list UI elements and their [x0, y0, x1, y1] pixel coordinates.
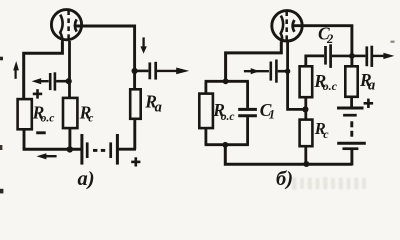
- wire Rc bottom lead (b): [304, 146, 307, 164]
- svg-text:с: с: [88, 112, 93, 124]
- resistor Rc (a): [63, 98, 77, 128]
- resistor Ra (a): [130, 89, 141, 119]
- input arrow right (b): [244, 70, 269, 72]
- battery B2 (b): long plate: [337, 142, 366, 145]
- bottom rail (a): [23, 148, 81, 151]
- battery B1 (a): dashes: [93, 149, 97, 152]
- wire down to bottom rail (b): [225, 145, 352, 165]
- battery B2 (b): short plate: [343, 147, 359, 150]
- node: anode/C2/Ra junction dot (b): [349, 53, 355, 59]
- tube V1 cathode: [60, 15, 62, 42]
- battery B2 (b): short plate: [343, 114, 357, 117]
- node: bottom junction dot (a): [67, 146, 73, 152]
- wire Ra bottom lead: [133, 119, 136, 149]
- page speck left top: [0, 57, 3, 61]
- node: grid junction dot: [66, 78, 72, 84]
- arrow down (anode current): [142, 37, 144, 47]
- plus sign battery (b): [364, 102, 374, 105]
- tube V2 anode: [293, 20, 295, 32]
- svg-text:с: с: [323, 127, 329, 141]
- wire left branch to Ro.c (b): [204, 81, 207, 93]
- battery B2 (b): long plate: [337, 107, 364, 110]
- tube V2 envelope: [272, 11, 302, 41]
- minus sign under Ro.c: [36, 131, 46, 134]
- resistor Ro.c (a): [18, 99, 32, 129]
- capacitor Cg (a) plates: [49, 73, 52, 90]
- wire Cg to grid lead (b): [278, 70, 288, 73]
- node: anode junction dot: [132, 68, 138, 74]
- wire battery to Ra lead: [119, 148, 136, 151]
- capacitor C-out (b) plates: [365, 46, 368, 66]
- plus sign battery (a): [131, 161, 140, 164]
- wire C2 to junction: [332, 55, 352, 58]
- wire junction to output capacitor: [135, 70, 149, 73]
- wire Cg to grid junction: [56, 80, 69, 83]
- battery B1 (a): long plate: [80, 134, 83, 165]
- node: Rc bottom rail dot (b): [303, 161, 309, 167]
- node: bottom of RC block dot (b): [222, 142, 228, 148]
- up arrow (input, a): [15, 69, 17, 79]
- tube V2 cathode: [281, 16, 283, 43]
- wire C1 bottom lead: [246, 117, 249, 145]
- arrow left under rail (a): [37, 153, 47, 159]
- wire between Ro.c and Rc (b): [304, 97, 307, 120]
- svg-text:1: 1: [269, 107, 275, 121]
- svg-text:о.с: о.с: [41, 113, 55, 125]
- capacitor C-out (a) plates: [148, 62, 151, 79]
- svg-text:о.с: о.с: [221, 111, 235, 123]
- capacitor C1 plates: [238, 108, 257, 111]
- node: top of RC block dot (b): [223, 78, 229, 84]
- svg-text:о.с: о.с: [323, 79, 338, 93]
- wire grid lead down to divider (b): [288, 42, 306, 110]
- wire Rc bottom lead: [68, 128, 71, 149]
- wire Ro.c bottom lead: [23, 129, 26, 149]
- battery B1 (a): long plate: [116, 134, 119, 165]
- page speck top right: [391, 41, 395, 43]
- wire grid lead: [68, 41, 71, 99]
- svg-text:а): а): [78, 168, 95, 190]
- wire top of divider to C2: [306, 56, 324, 67]
- input arrow left (a): [32, 78, 42, 84]
- page speck left bottom: [0, 189, 3, 194]
- wire RC block top bar: [205, 80, 249, 83]
- wire Ro.c (b) bottom lead: [204, 128, 207, 145]
- node: divider junction dot (b): [302, 106, 308, 112]
- resistor Ro.c (b, middle): [300, 66, 313, 97]
- tube V1 anode: [75, 19, 77, 31]
- capacitor Cg (b) plates: [269, 62, 272, 81]
- svg-text:а: а: [155, 100, 162, 116]
- page speck left middle: [0, 145, 2, 150]
- wire C1 top lead: [246, 81, 249, 108]
- resistor Ra (b): [345, 66, 357, 97]
- capacitor C2 plates: [324, 46, 327, 65]
- tube V1 grid (dashed): [67, 10, 70, 40]
- node: grid/Cg junction dot (b): [285, 69, 290, 74]
- resistor Rc (b): [300, 120, 313, 147]
- wire RC block bottom bar: [205, 143, 249, 146]
- battery B1 (a): short plate: [109, 142, 112, 158]
- output arrow right (b): [373, 55, 385, 57]
- wire anode to corner and down to node: [293, 26, 352, 67]
- wire battery to bottom rail (b): [350, 149, 353, 166]
- resistor Ro.c (b, left): [199, 94, 213, 129]
- wire junction to output capacitor (b): [352, 55, 366, 58]
- output arrow right (a): [157, 70, 179, 72]
- wire Ra to battery (b): [350, 97, 353, 108]
- tube V1 envelope: [51, 10, 81, 40]
- faint print bleed bottom right: [292, 177, 366, 190]
- svg-text:а: а: [368, 78, 375, 94]
- wire cathode to left branch: [24, 42, 63, 100]
- battery B1 (a): short plate: [86, 142, 89, 158]
- svg-text:2: 2: [326, 32, 333, 46]
- svg-text:б): б): [276, 168, 293, 190]
- wire cathode to left branch (b): [226, 42, 282, 82]
- wire anode to top-right corner and down: [75, 26, 135, 91]
- plus sign near Cg (a): [33, 93, 42, 96]
- tube V2 grid (dashed): [285, 11, 288, 41]
- battery B2 (b): dashes: [350, 121, 353, 127]
